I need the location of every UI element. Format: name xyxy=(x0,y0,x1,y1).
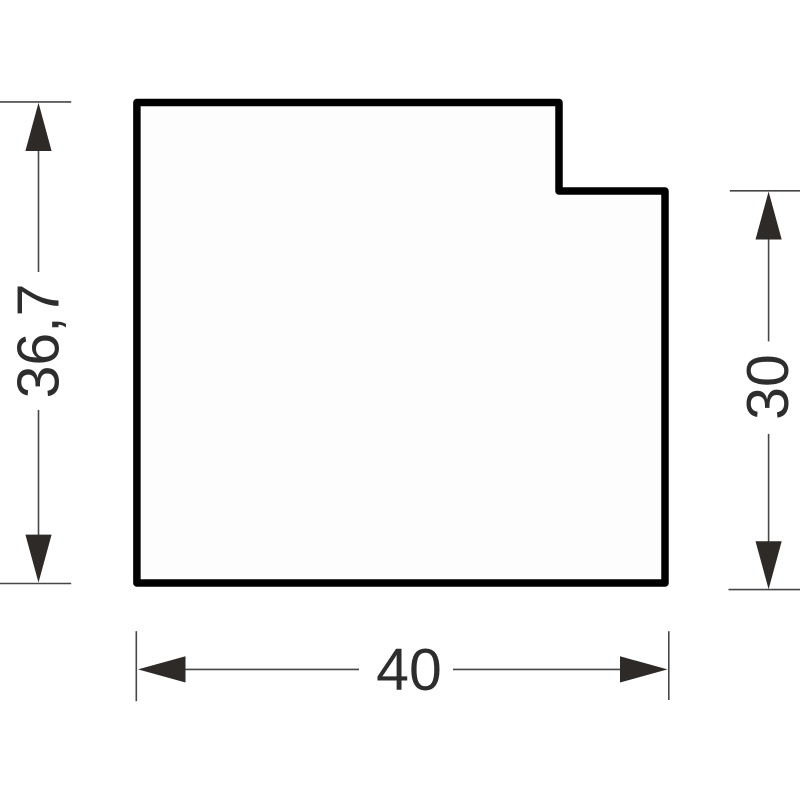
svg-text:36,7: 36,7 xyxy=(5,284,71,399)
svg-text:40: 40 xyxy=(376,637,442,703)
svg-text:30: 30 xyxy=(735,354,800,420)
